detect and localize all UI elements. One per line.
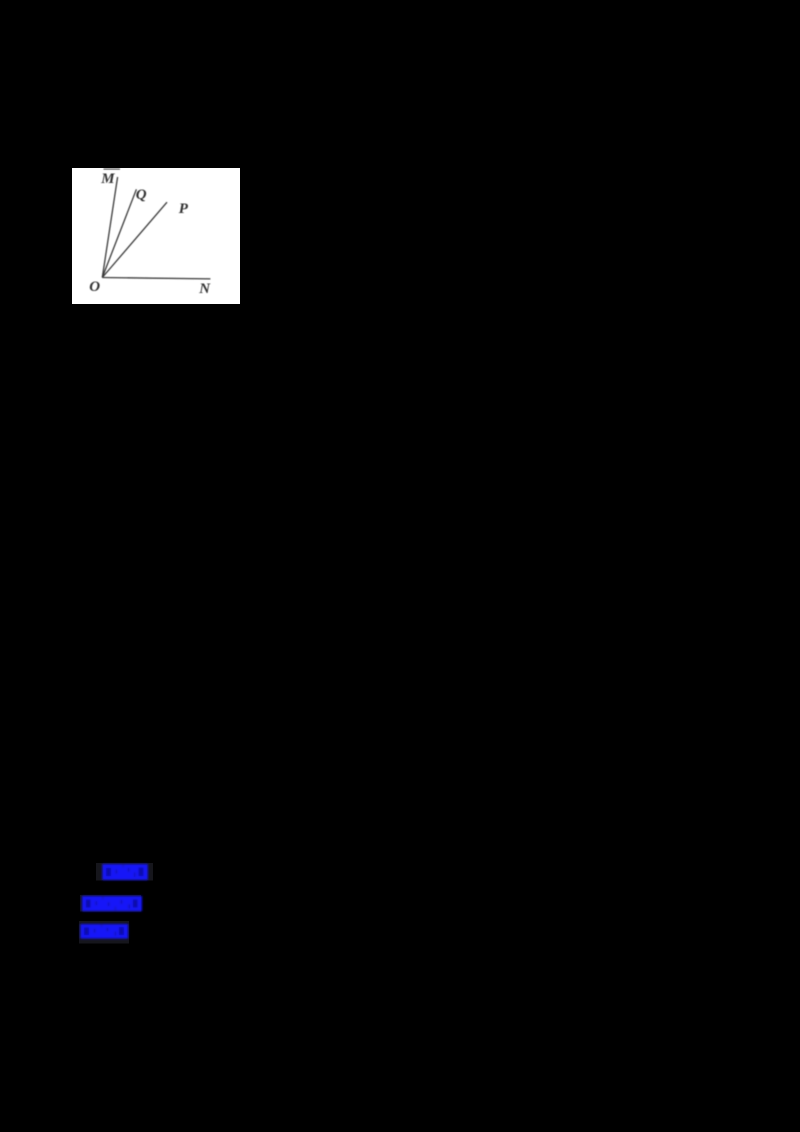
- figure panel (white box with angle diagram): [72, 168, 240, 304]
- crop artifact bar at top: [104, 168, 121, 169]
- blue tag line 1: [94, 860, 156, 886]
- ray OQ: [102, 189, 136, 277]
- blue tag line 2: [76, 892, 148, 918]
- svg-text:M: M: [100, 170, 115, 186]
- svg-text:O: O: [89, 279, 100, 295]
- svg-text:Q: Q: [136, 187, 147, 203]
- svg-text:P: P: [179, 200, 189, 216]
- ray ON (horizontal): [102, 277, 210, 278]
- svg-text:N: N: [198, 281, 211, 297]
- ray OP: [102, 202, 167, 277]
- blue tag line 3: [74, 920, 136, 948]
- ray OM: [102, 177, 117, 278]
